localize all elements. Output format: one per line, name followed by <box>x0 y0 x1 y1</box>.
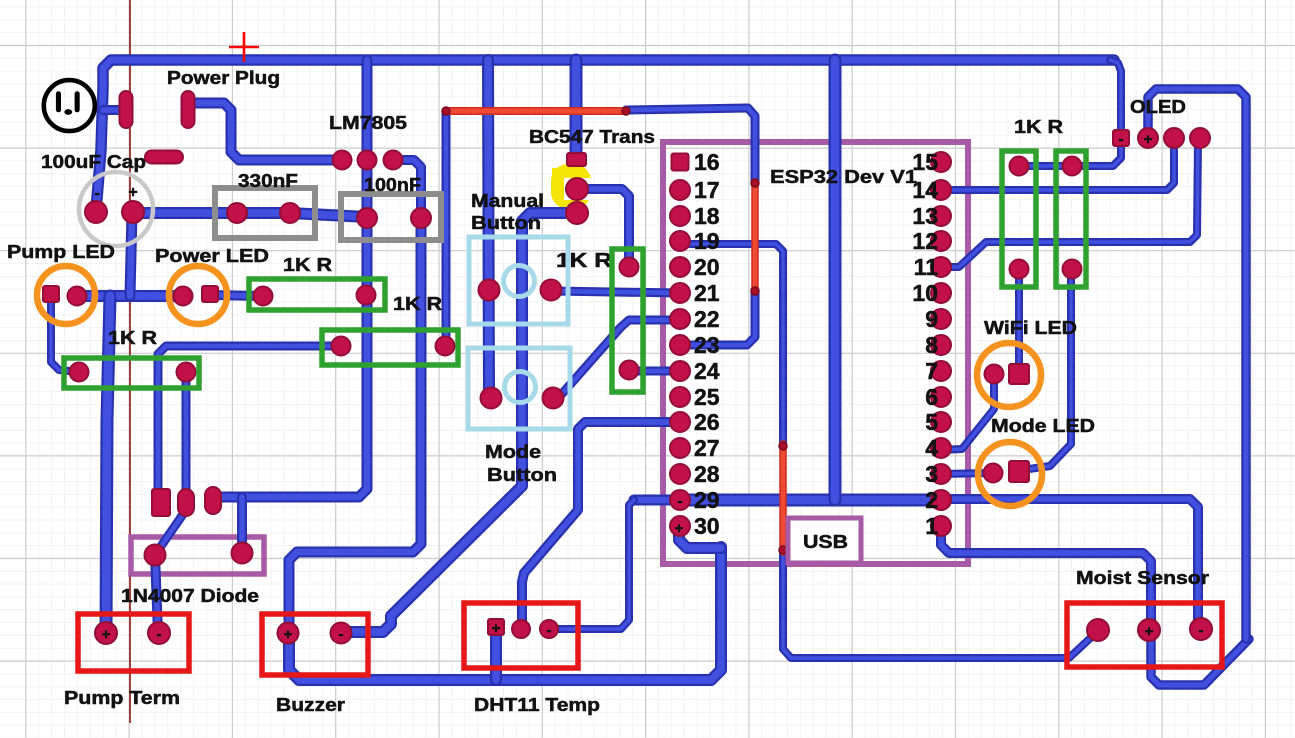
pad polarity symbols <box>94 131 1203 643</box>
svg-text:-: - <box>1199 622 1204 639</box>
wire BC547 mid to 1K R top <box>577 189 629 267</box>
svg-text:330nF: 330nF <box>238 171 298 191</box>
svg-text:27: 27 <box>694 435 720 461</box>
resistor R4 1K outline <box>249 279 385 310</box>
pin numbers 15-1 <box>912 149 938 539</box>
svg-text:Manual: Manual <box>471 191 544 211</box>
wire diode pad2 tee <box>237 497 247 553</box>
mode button ring <box>505 372 536 403</box>
pad moist + <box>1138 619 1160 641</box>
power LED outline <box>169 266 227 324</box>
pad 100nF b <box>411 208 431 228</box>
svg-text:1K R: 1K R <box>556 250 613 272</box>
svg-text:1K R: 1K R <box>393 294 442 314</box>
pad cap + <box>122 201 144 223</box>
copper traces top layer (red) <box>446 111 783 552</box>
pad 1KRa bot <box>1010 260 1029 279</box>
ESP32 header pads left column pins 16-30 <box>670 180 690 200</box>
svg-text:17: 17 <box>694 177 720 203</box>
svg-text:+: + <box>128 184 137 201</box>
pad 1KR3 b <box>436 337 455 356</box>
svg-text:-: - <box>157 626 162 643</box>
wire rail drop to OLED - <box>1110 60 1121 138</box>
pad 1KR2 a <box>70 363 89 382</box>
wifi LED outline <box>977 343 1041 407</box>
svg-text:14: 14 <box>912 177 938 203</box>
mode LED outline <box>978 442 1042 506</box>
pad OLED - <box>1113 130 1129 146</box>
pad DHT + <box>488 619 504 635</box>
pad mode b <box>543 388 564 409</box>
svg-text:WiFi LED: WiFi LED <box>984 318 1077 338</box>
wire 1K R bottom to pin24 <box>629 370 680 371</box>
wire pin14 to OLED pad3 <box>942 141 1174 190</box>
pad modeLED round <box>984 464 1003 483</box>
wire BC547 emitter to buzzer- <box>341 213 577 632</box>
wire 1KR tops to OLED - <box>1019 138 1121 166</box>
svg-text:20: 20 <box>694 254 720 280</box>
wire manual button to pin21 <box>551 291 680 293</box>
pad 1KRb top <box>1063 157 1082 176</box>
pad relay pill1 <box>178 489 194 516</box>
svg-text:Pump LED: Pump LED <box>7 242 115 262</box>
wire 1KRb bottom to mode sq <box>1029 268 1071 469</box>
component outlines <box>37 151 1222 675</box>
pad 1KR4 a <box>254 287 273 306</box>
wire rail to BC547 base <box>570 60 583 160</box>
power plug icon <box>44 80 95 131</box>
pad cap - <box>85 201 107 223</box>
pad LM7805 1 <box>333 151 352 170</box>
pads <box>43 91 1212 644</box>
wire GND row <box>680 494 941 507</box>
wire plug pad1 stub <box>103 105 126 115</box>
resistor R2 1K outline <box>64 358 199 388</box>
pad pumpLED round <box>68 287 87 306</box>
svg-text:23: 23 <box>694 332 720 358</box>
pad OLED + <box>1138 128 1158 148</box>
mode button outline <box>468 348 570 429</box>
svg-text:+: + <box>102 626 111 643</box>
pad 330nF a <box>227 203 247 223</box>
svg-text:28: 28 <box>694 461 720 487</box>
svg-text:LM7805: LM7805 <box>329 113 407 133</box>
svg-text:Button: Button <box>471 213 541 233</box>
wire red1 bottom to pin23 <box>680 290 755 345</box>
svg-text:-: - <box>339 626 344 643</box>
svg-text:19: 19 <box>694 228 720 254</box>
wire 1KR3 to relay square <box>158 346 341 494</box>
wire red-horiz end to 1KR3 <box>442 114 451 346</box>
pad 1KRv top <box>620 258 639 277</box>
svg-text:1K R: 1K R <box>108 328 157 348</box>
svg-text:100uF Cap: 100uF Cap <box>41 152 146 172</box>
wire LM7805 mid / 100nF-1 / down to relay pill <box>216 160 367 497</box>
pad modeLED square <box>1009 461 1029 482</box>
svg-text:Button: Button <box>487 465 557 485</box>
wire pumpLED sq to 1KR2 <box>51 294 79 372</box>
wire mode round to pin3 <box>941 473 993 474</box>
DHT11 outline <box>464 603 578 668</box>
svg-text:4: 4 <box>925 435 938 461</box>
pad 1KR3 a <box>332 337 351 356</box>
svg-text:26: 26 <box>694 409 720 435</box>
pad powerLED round <box>174 287 193 306</box>
svg-text:USB: USB <box>803 532 848 552</box>
svg-text:-: - <box>94 185 99 202</box>
wire DHT11 + drop <box>490 629 502 680</box>
red jumper horizontal <box>446 107 626 115</box>
pad DHT - <box>540 620 558 638</box>
pad moist - <box>1190 618 1212 640</box>
pad plug 1 <box>120 91 133 128</box>
pad mode a <box>481 388 502 409</box>
wire plug pad2 to LM7805 in <box>188 103 342 160</box>
svg-text:Moist Sensor: Moist Sensor <box>1076 568 1209 588</box>
wire moist+ to right VCC rail <box>1151 630 1249 685</box>
wire pin11 to OLED pad4 <box>941 141 1198 267</box>
wire OLED + up and right rail <box>1148 89 1246 639</box>
capacitor 330nF outline <box>215 188 315 238</box>
svg-text:BC547 Trans: BC547 Trans <box>529 127 655 147</box>
pad OLED 3 <box>1164 128 1184 148</box>
resistor R3 1K outline <box>322 330 458 365</box>
pad BC547 base <box>567 153 586 166</box>
svg-text:21: 21 <box>694 280 720 306</box>
wire mode button to pin22 <box>553 320 680 397</box>
svg-text:Mode: Mode <box>485 442 541 462</box>
pad 1KRb bot <box>1063 260 1082 279</box>
wire 5V top rail / cap- leg <box>96 60 1114 210</box>
svg-text:OLED: OLED <box>1130 97 1186 117</box>
wire relay pill1 to diode1 <box>159 510 186 549</box>
pad BC547 bot <box>566 202 588 224</box>
resistor R6 1K outline <box>1002 151 1036 287</box>
svg-text:1K R: 1K R <box>283 255 332 275</box>
wire rail to LM7805 mid <box>362 60 373 160</box>
ESP32 header pads right column pins 15-1 <box>931 152 951 172</box>
pad spare pill <box>145 151 183 164</box>
wire pin2 to moist - <box>941 499 1198 629</box>
wire diode1 to pump - <box>155 555 158 633</box>
registration cross <box>229 32 259 62</box>
buzzer outline <box>262 614 368 675</box>
wire 1KRa bottom to wifi sq <box>1015 269 1023 374</box>
pump LED outline <box>37 266 95 324</box>
wire 1KR2 to relay pill1 <box>182 372 191 492</box>
capacitor 100uF outline <box>79 172 153 246</box>
pad LM7805 2 <box>358 151 377 170</box>
svg-text:-: - <box>547 622 552 639</box>
wire red1 left blue <box>626 108 755 184</box>
pad LM7805 3 <box>384 151 403 170</box>
svg-text:30: 30 <box>694 513 720 539</box>
pump terminal outline <box>78 614 189 671</box>
pad diode a <box>145 545 166 566</box>
fabrication boundary line <box>129 0 131 723</box>
svg-text:3: 3 <box>925 461 938 487</box>
wire VCC bottom rail <box>289 547 721 680</box>
svg-text:DHT11 Temp: DHT11 Temp <box>474 695 600 715</box>
svg-text:+: + <box>675 520 684 537</box>
pad pin16 <box>672 154 689 171</box>
wire pin29 left <box>634 495 680 506</box>
wire pin29 to DHT11 - <box>549 500 634 629</box>
pad DHT data <box>512 620 530 638</box>
svg-text:Buzzer: Buzzer <box>276 695 345 715</box>
manual button ring <box>504 266 535 297</box>
red jumper vertical 2 <box>779 444 787 552</box>
svg-text:25: 25 <box>694 384 720 410</box>
transistor Q1 BC547 highlight <box>551 164 591 209</box>
svg-text:6: 6 <box>925 384 938 410</box>
pad 330nF b <box>280 203 300 223</box>
wire pin30 to VCC rail <box>679 527 721 548</box>
via dots <box>442 107 787 554</box>
svg-text:12: 12 <box>912 228 938 254</box>
wire pin1 to moist + <box>941 526 1151 630</box>
svg-text:8: 8 <box>925 332 938 358</box>
wire 100nF-2 down to buzzer+ <box>289 218 421 633</box>
pad 1KRa top <box>1010 157 1029 176</box>
USB connector outline <box>788 518 861 563</box>
svg-text:16: 16 <box>694 149 720 175</box>
wire LM7805 out to 100nF-2 <box>393 160 421 218</box>
pad manual a <box>479 280 500 301</box>
svg-text:22: 22 <box>694 306 720 332</box>
svg-text:+: + <box>1144 131 1153 148</box>
wire GND vertical <box>829 60 842 500</box>
red jumper vertical 1 <box>751 182 759 292</box>
pad pump + <box>95 622 117 644</box>
pad wifiLED round <box>985 365 1004 384</box>
wire cap+ down <box>130 212 132 296</box>
capacitor 100nF outline <box>341 194 441 240</box>
pad BC547 mid <box>566 178 588 200</box>
resistor R5 1K outline <box>612 249 643 392</box>
wire LED row <box>77 290 183 302</box>
wire wifi round to pin4 <box>941 374 994 450</box>
svg-text:+: + <box>492 620 501 637</box>
pad plug 2 <box>182 91 195 128</box>
svg-text:10: 10 <box>912 280 938 306</box>
svg-text:Pump Term: Pump Term <box>64 688 180 708</box>
wire pin19 down <box>680 244 783 446</box>
pad pumpLED square <box>43 286 59 302</box>
svg-text:24: 24 <box>694 358 720 384</box>
resistor R7 1K outline <box>1056 151 1086 287</box>
svg-text:29: 29 <box>694 487 720 513</box>
pad manual b <box>541 280 562 301</box>
svg-text:9: 9 <box>925 306 938 332</box>
svg-text:18: 18 <box>694 203 720 229</box>
svg-text:Power Plug: Power Plug <box>167 68 280 88</box>
svg-text:1K R: 1K R <box>1014 117 1063 137</box>
pad relay square <box>152 489 170 516</box>
svg-text:1: 1 <box>925 513 938 539</box>
svg-text:-: - <box>1119 131 1124 148</box>
pad diode b <box>232 543 253 564</box>
pad pump - <box>148 622 170 644</box>
wire red2 bottom to moist data <box>783 550 1098 658</box>
svg-text:-: - <box>678 493 683 510</box>
manual button outline <box>469 237 568 324</box>
svg-text:2: 2 <box>925 487 938 513</box>
ESP32 Dev board outline <box>663 142 968 564</box>
wire pin26 to DHT11 data <box>522 422 681 629</box>
pad buzzer + <box>278 623 299 644</box>
svg-text:+: + <box>284 626 293 643</box>
svg-text:11: 11 <box>914 254 939 280</box>
pad moist data <box>1087 619 1109 641</box>
svg-text:Mode LED: Mode LED <box>991 416 1095 436</box>
pad 100nF a <box>357 208 377 228</box>
svg-text:7: 7 <box>925 358 938 384</box>
diode D1 1N4007 outline <box>131 537 264 574</box>
wire rail to manual/mode buttons <box>488 60 489 398</box>
pad buzzer - <box>331 623 352 644</box>
wire to pump term + <box>106 296 110 633</box>
svg-text:13: 13 <box>912 203 938 229</box>
svg-text:Power LED: Power LED <box>155 246 269 266</box>
wire powerLED sq to 1KR4 <box>210 295 263 296</box>
pad 1KRv bot <box>620 361 639 380</box>
pad 1KR2 b <box>177 363 196 382</box>
moist sensor outline <box>1067 603 1222 667</box>
pad OLED 4 <box>1190 128 1210 148</box>
svg-text:5: 5 <box>925 409 938 435</box>
svg-text:ESP32 Dev V1: ESP32 Dev V1 <box>770 167 917 187</box>
pin numbers 16-30 <box>694 149 720 539</box>
svg-text:1N4007 Diode: 1N4007 Diode <box>121 586 259 606</box>
copper traces bottom layer <box>51 60 1249 685</box>
pad 1KR4 b <box>357 286 376 305</box>
svg-text:15: 15 <box>912 149 938 175</box>
pad wifiLED square <box>1009 364 1029 384</box>
pad powerLED square <box>202 286 218 302</box>
svg-text:100nF: 100nF <box>364 175 421 195</box>
svg-text:+: + <box>1145 623 1154 640</box>
pad relay pill2 <box>205 487 221 514</box>
wire cap+ to 330nF/100nF <box>133 213 367 217</box>
